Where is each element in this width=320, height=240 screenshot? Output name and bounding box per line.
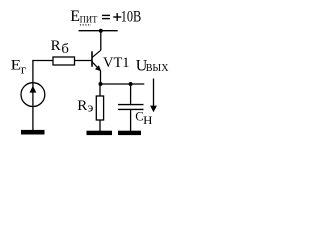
arrow Uвых output [150, 79, 157, 113]
wire source to ground [32, 107, 34, 131]
resistor Rб [53, 57, 75, 65]
svg-text:R: R [77, 98, 87, 114]
wire emitter vertical [100, 71, 102, 84]
wire capacitor to ground [130, 109, 132, 131]
ground under source [21, 130, 45, 135]
junction dot capacitor node [129, 82, 133, 86]
wire collector vertical [100, 31, 102, 51]
label Сн [135, 109, 153, 127]
wire emitter bus [101, 83, 145, 85]
svg-text:Н: Н [143, 114, 153, 127]
source Ег (circle with up arrow) [21, 83, 45, 107]
svg-text:ПИТ: ПИТ [80, 16, 98, 26]
label Епит = +10В [70, 8, 141, 26]
transistor VT1 [92, 50, 101, 71]
label Rб [51, 38, 69, 57]
resistor Rэ [96, 96, 103, 120]
ground under Rэ [87, 131, 113, 135]
svg-text:R: R [51, 38, 61, 54]
ground under capacitor [118, 131, 141, 135]
svg-text:Е: Е [11, 58, 22, 74]
capacitor Сн [118, 105, 144, 110]
power rail [79, 30, 118, 32]
svg-text:10В: 10В [121, 8, 142, 25]
wire from source to Rб [33, 61, 53, 83]
wire emitter node to Rэ [99, 84, 101, 96]
wire capacitor node down [130, 84, 132, 104]
label Ег [11, 58, 27, 77]
svg-text:г: г [21, 61, 26, 76]
label Rэ [77, 98, 93, 115]
wire Rэ to ground [99, 120, 101, 131]
svg-text:Е: Е [70, 8, 80, 25]
svg-text:VT1: VT1 [103, 55, 130, 71]
svg-text:э: э [88, 101, 94, 115]
svg-text:б: б [61, 42, 69, 57]
svg-text:ВЫХ: ВЫХ [146, 63, 169, 74]
wire base [75, 60, 92, 62]
junction dot emitter node [99, 82, 103, 86]
junction dot on rail [99, 29, 103, 33]
label Uвых [136, 57, 169, 74]
